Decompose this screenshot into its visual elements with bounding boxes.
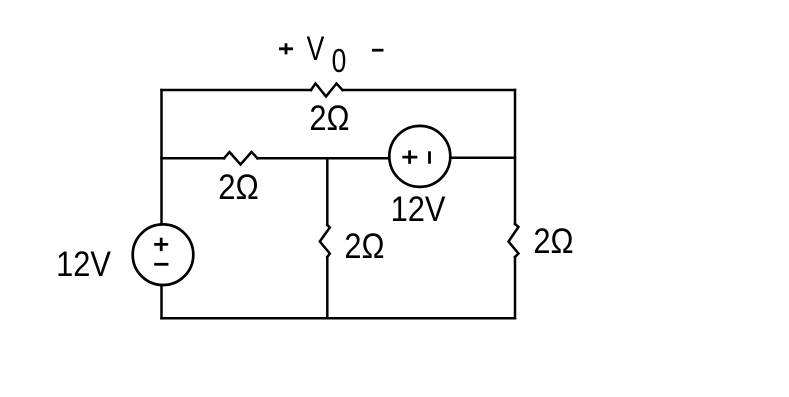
svg-text:2Ω: 2Ω [309,98,349,137]
resistor R4 2ohm (right, vertical) [509,224,519,257]
wire middle-left segment [162,157,225,160]
svg-text:2Ω: 2Ω [344,226,384,265]
voltage source V1 12V (left) [133,224,194,285]
wire middle-right segment [452,157,516,160]
resistor R2 2ohm (middle wire) [224,152,258,165]
wire right lower segment [514,257,517,318]
wire right upper segment [514,90,517,224]
voltage source V2 12V (middle, +- horizontal) [389,126,450,187]
svg-text:12V: 12V [391,189,446,228]
svg-text:12V: 12V [56,244,111,283]
svg-text:2Ω: 2Ω [218,168,259,207]
wire left lower segment [160,286,163,319]
wire left upper segment [160,90,163,224]
svg-text:V: V [307,30,325,68]
svg-text:2Ω: 2Ω [533,221,573,260]
wire branch upper segment [326,158,329,225]
wire bottom segment [162,317,516,320]
wire top-left segment [162,89,312,92]
wire top-right segment [343,89,516,92]
wire middle-center segment [258,157,390,160]
svg-text:0: 0 [332,43,347,79]
label node voltage + Vo - [279,30,384,80]
wire branch lower segment [326,257,329,318]
resistor R1 2ohm (top) [311,84,343,97]
resistor R3 2ohm (middle branch, vertical) [320,225,330,257]
